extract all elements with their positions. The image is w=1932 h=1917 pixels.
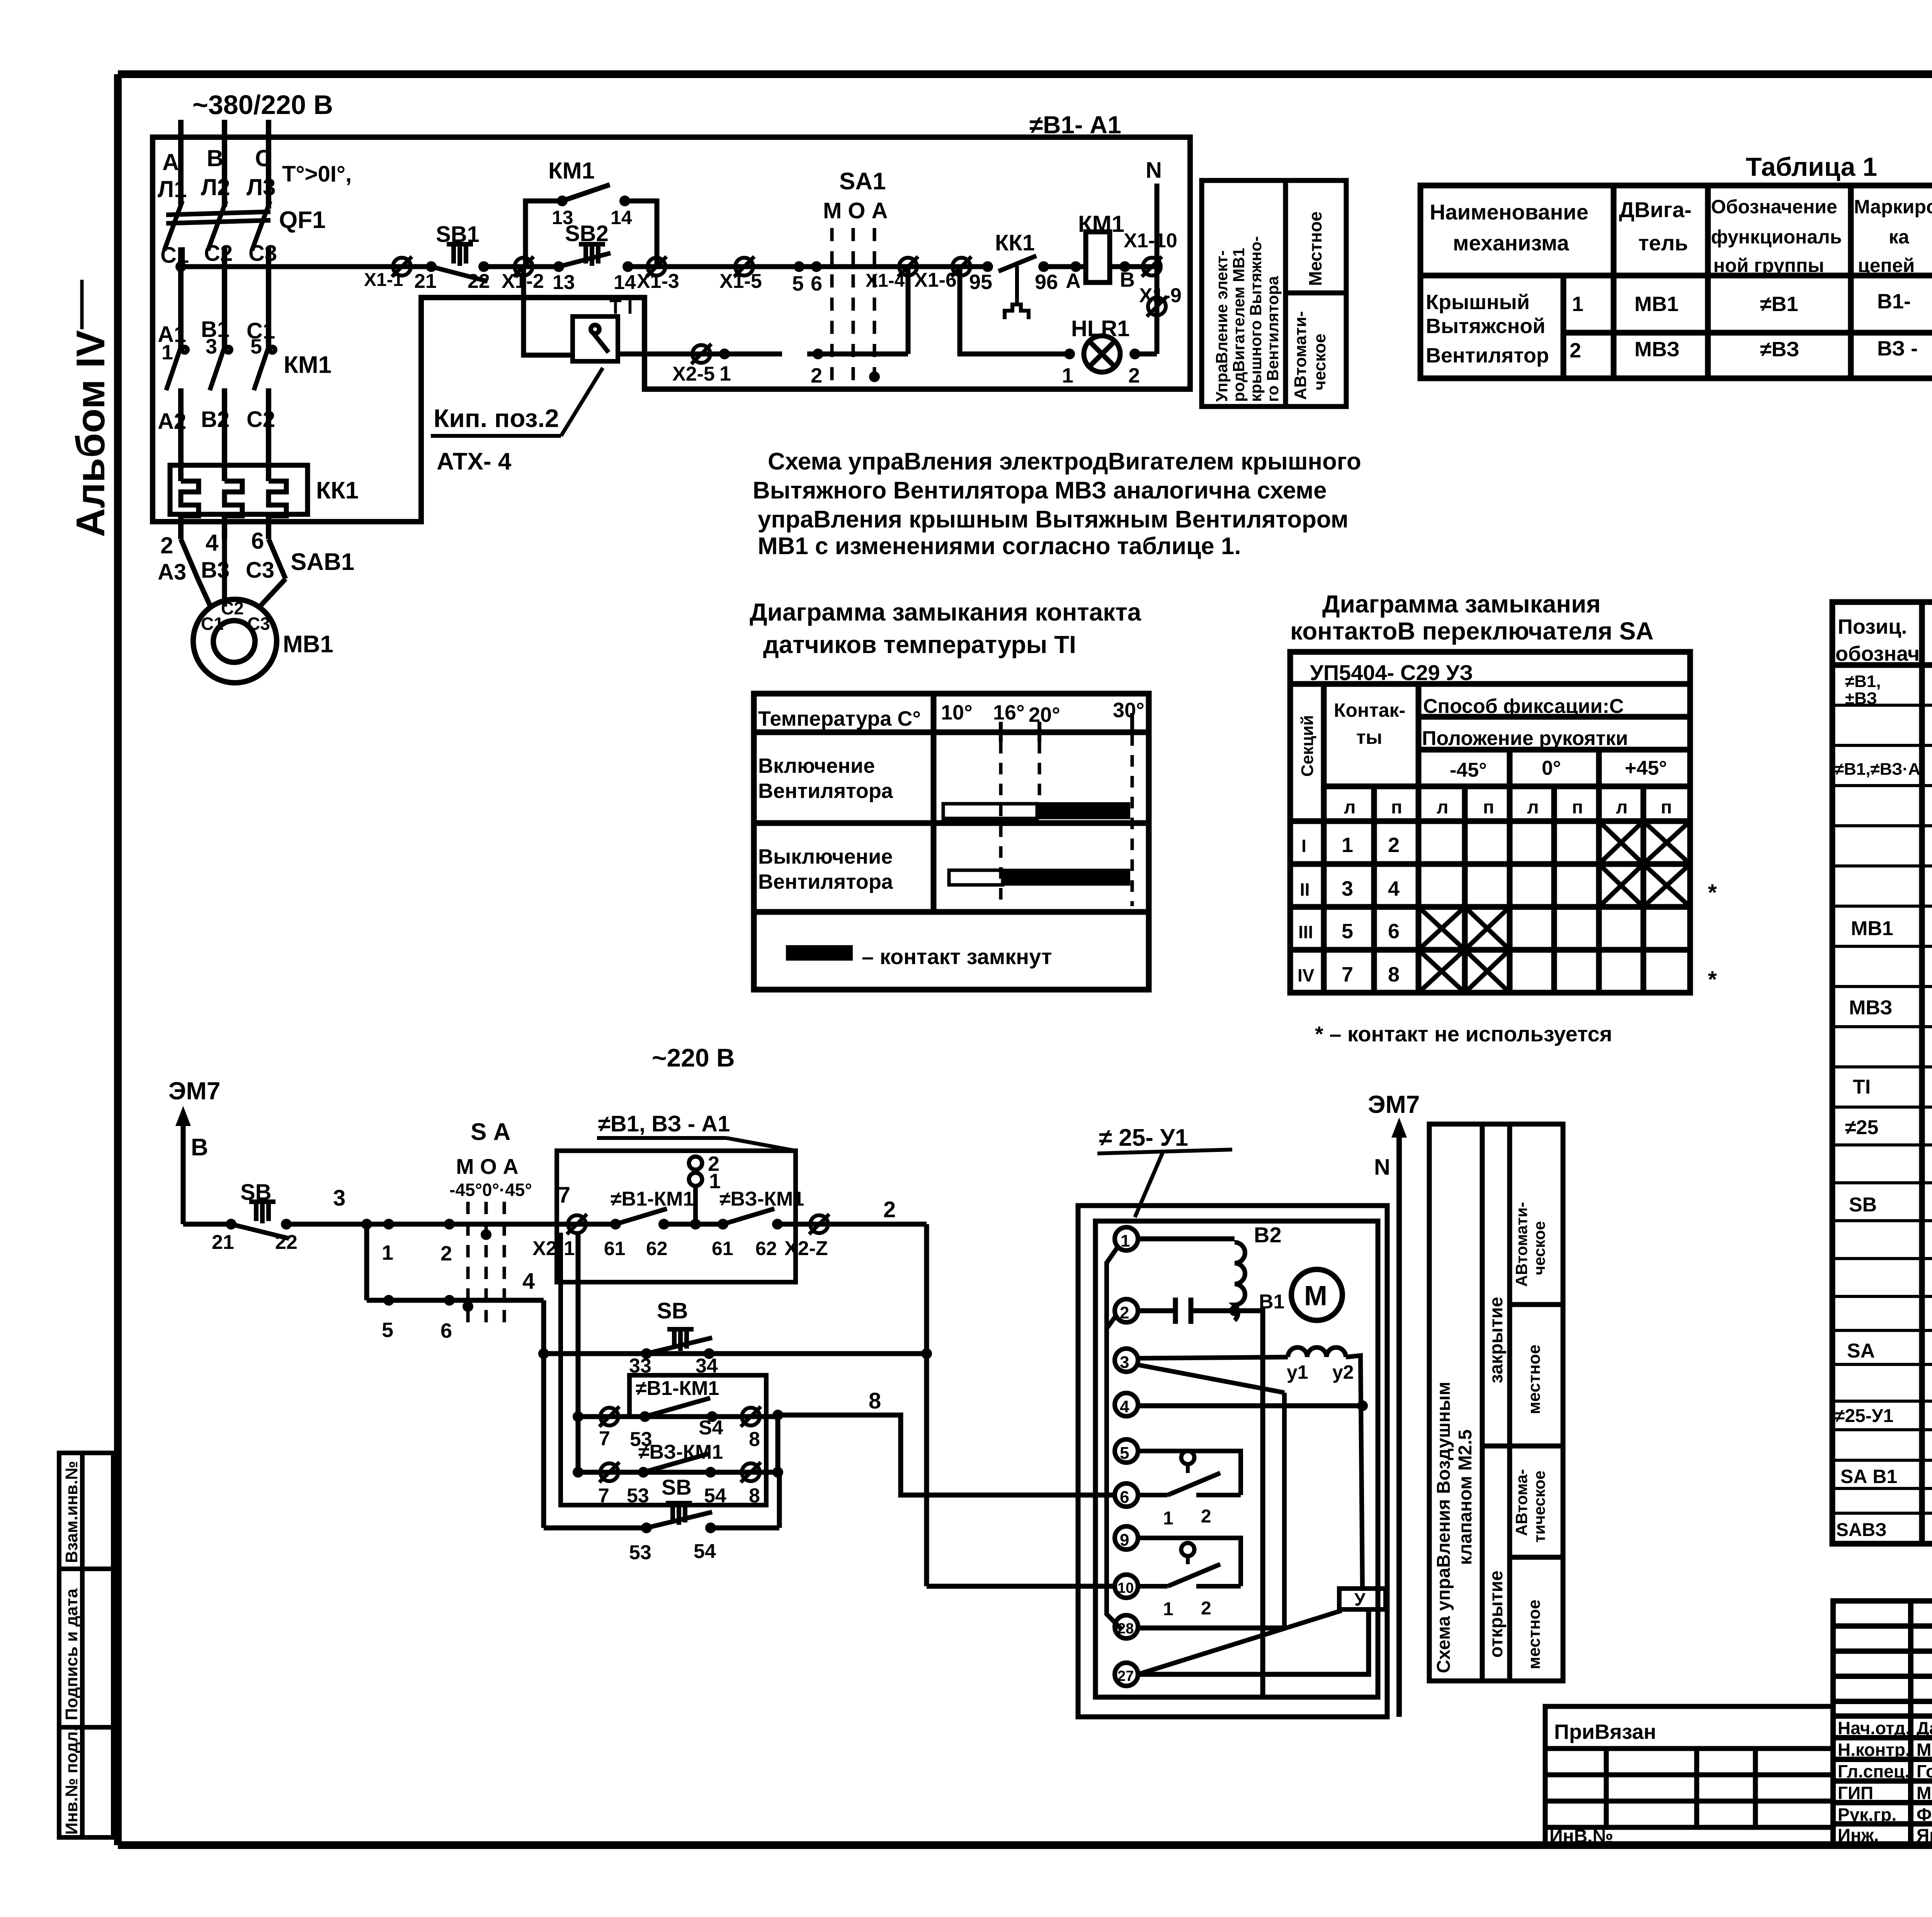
svg-text:8: 8 [869, 1388, 881, 1414]
svg-text:22: 22 [468, 270, 490, 293]
svg-text:2: 2 [811, 364, 822, 387]
phase A line [178, 120, 184, 205]
node 6 [444, 1295, 455, 1306]
svg-text:5: 5 [382, 1318, 393, 1342]
phase lines KK1 to switch [178, 514, 184, 539]
title block main grid [1833, 1601, 1932, 1845]
svg-text:S А: S А [471, 1119, 510, 1145]
mode legend box (right of control circuit) [1202, 180, 1346, 407]
node 5 [794, 261, 804, 272]
terminal X1-3 [646, 257, 667, 277]
svg-text:Мосеенко: Мосеенко [1917, 1740, 1932, 1760]
svg-text:ГИП: ГИП [1838, 1783, 1873, 1803]
svg-text:А: А [1066, 269, 1081, 293]
svg-text:Взам.инв.№: Взам.инв.№ [62, 1461, 81, 1563]
TI dashed guides [1001, 734, 1132, 906]
svg-text:13: 13 [553, 271, 575, 294]
svg-text:SА: SА [1847, 1340, 1875, 1362]
TI ON bar [943, 804, 1037, 818]
terminal 6 [1115, 1483, 1138, 1507]
svg-text:0°: 0° [1542, 757, 1561, 779]
svg-text:А3: А3 [158, 560, 186, 585]
svg-text:3: 3 [333, 1186, 345, 1211]
svg-text:96: 96 [1035, 270, 1058, 294]
svg-text:1: 1 [1342, 833, 1353, 857]
svg-text:4: 4 [1120, 1397, 1129, 1416]
svg-text:Вытяжсной: Вытяжсной [1426, 315, 1545, 338]
svg-text:цепей: цепей [1858, 255, 1915, 276]
svg-text:N: N [1146, 158, 1162, 183]
svg-text:В: В [191, 1134, 208, 1161]
svg-text:КК1: КК1 [995, 230, 1035, 255]
svg-text:1: 1 [1062, 364, 1073, 387]
limit switch contact 10 [1181, 1543, 1194, 1556]
svg-text:16°: 16° [993, 701, 1025, 724]
svg-text:1: 1 [719, 362, 731, 385]
svg-text:Позиц.: Позиц. [1838, 615, 1907, 638]
node 95 [982, 261, 993, 272]
svg-text:Нач.отд.: Нач.отд. [1838, 1718, 1910, 1738]
svg-text:≠ВЗ-КМ1: ≠ВЗ-КМ1 [719, 1188, 804, 1210]
svg-text:ВЗ -: ВЗ - [1877, 337, 1918, 360]
svg-text:5: 5 [250, 335, 262, 358]
svg-text:Крышный: Крышный [1426, 291, 1530, 314]
svg-text:10°: 10° [941, 701, 973, 724]
svg-text:М О А: М О А [456, 1154, 519, 1179]
terminal 9 [1115, 1526, 1138, 1550]
svg-text:*: * [1708, 879, 1717, 905]
svg-text:открытие: открытие [1486, 1570, 1507, 1658]
node 13 [553, 261, 564, 272]
terminal X1-5 [734, 257, 754, 277]
phase lines to KM1 [178, 247, 184, 347]
svg-text:МВ1 с изменениями согласно таб: МВ1 с изменениями согласно таблице 1. [758, 533, 1241, 560]
svg-text:QF1: QF1 [279, 207, 326, 233]
svg-text:МаркироВ: МаркироВ [1854, 196, 1932, 218]
svg-text:С2: С2 [204, 241, 233, 266]
node 21 [426, 261, 437, 272]
limit switch loop at 5-6 [1138, 1451, 1241, 1495]
svg-text:~380/220 В: ~380/220 В [192, 90, 333, 120]
svg-text:Диаграмма замыкания: Диаграмма замыкания [1322, 590, 1601, 618]
wire N drop [1155, 184, 1160, 354]
svg-text:клапаном М2.5: клапаном М2.5 [1455, 1429, 1476, 1565]
svg-text:Гольцман: Гольцман [1917, 1761, 1932, 1781]
wire from junction down right side [1235, 1311, 1263, 1696]
svg-text:6: 6 [811, 272, 822, 295]
svg-text:– контакт замкнут: – контакт замкнут [862, 944, 1052, 969]
svg-text:≠В1- А1: ≠В1- А1 [1029, 111, 1121, 139]
svg-text:62: 62 [646, 1238, 668, 1259]
svg-text:61: 61 [604, 1238, 626, 1259]
svg-text:Вентилятора: Вентилятора [758, 870, 893, 893]
svg-text:В1-: В1- [1877, 290, 1911, 313]
svg-text:л: л [1527, 797, 1539, 818]
actuator outer box [1078, 1206, 1387, 1717]
svg-text:TI: TI [1853, 1076, 1871, 1098]
terminal X2-5 [691, 344, 711, 364]
svg-text:тическое: тическое [1530, 1471, 1548, 1543]
TI OFF bar [949, 870, 1003, 885]
svg-text:≠25: ≠25 [1845, 1116, 1878, 1139]
svg-text:А: А [162, 149, 179, 175]
packet switch SAB1 blades [181, 539, 286, 607]
svg-text:6: 6 [251, 528, 264, 554]
svg-text:27: 27 [1117, 1668, 1134, 1684]
actuator inner box [1095, 1221, 1378, 1697]
svg-text:КМ1: КМ1 [548, 158, 595, 184]
internal bus with diagonals [1107, 1247, 1121, 1629]
svg-text:8: 8 [1388, 963, 1400, 986]
svg-text:Включение: Включение [758, 754, 875, 777]
svg-text:SB: SB [1849, 1194, 1877, 1216]
svg-text:Инж.: Инж. [1838, 1825, 1879, 1845]
svg-text:С: С [255, 145, 272, 171]
svg-text:6: 6 [440, 1319, 452, 1342]
temperature sensor TI [573, 316, 618, 361]
svg-text:МВ1: МВ1 [1634, 293, 1679, 316]
control box #B1,B3-A1 [557, 1151, 796, 1282]
svg-text:крышного Вытяжно-: крышного Вытяжно- [1247, 236, 1265, 402]
svg-text:Вентилятор: Вентилятор [1426, 344, 1549, 367]
TI legend [786, 945, 853, 961]
svg-text:SАВ1: SАВ1 [291, 549, 354, 575]
node 14 [622, 261, 633, 272]
svg-text:п: п [1572, 797, 1583, 818]
svg-text:III: III [1298, 922, 1313, 942]
svg-text:Таблица 1: Таблица 1 [1746, 152, 1877, 182]
node 2 [1129, 349, 1140, 359]
node 22 [478, 261, 489, 272]
svg-text:у2: у2 [1332, 1361, 1354, 1383]
svg-text:АТХ- 4: АТХ- 4 [437, 448, 512, 475]
svg-text:Схема упраВления Воздушным: Схема упраВления Воздушным [1434, 1382, 1454, 1673]
svg-text:-45°0°·45°: -45°0°·45° [449, 1180, 532, 1200]
svg-text:1: 1 [1163, 1508, 1173, 1529]
wire terminal 4 to N rail [1138, 1403, 1362, 1408]
svg-text:ДВига-: ДВига- [1619, 197, 1692, 222]
svg-text:Л1: Л1 [158, 176, 187, 202]
vertical linking 8 nodes [776, 1415, 781, 1472]
SA X marks +45 rows I,II [1418, 821, 1690, 993]
svg-text:АВтомати-: АВтомати- [1512, 1202, 1531, 1287]
terminal 28 [1115, 1615, 1138, 1638]
svg-text:54: 54 [694, 1540, 716, 1563]
svg-text:53: 53 [629, 1541, 651, 1564]
contactor KM1 main contacts [166, 347, 275, 390]
svg-text:местное: местное [1525, 1600, 1544, 1669]
svg-text:п: п [1661, 797, 1672, 818]
svg-text:3: 3 [206, 335, 217, 358]
svg-text:ФедороВа: ФедороВа [1917, 1805, 1932, 1825]
svg-text:2: 2 [160, 532, 173, 558]
svg-text:В: В [207, 145, 223, 171]
svg-text:4: 4 [1388, 877, 1400, 900]
svg-text:АВтома-: АВтома- [1512, 1469, 1531, 1536]
node 5 [383, 1295, 394, 1306]
wire: TI branch from X1-2 [524, 267, 573, 355]
drawing frame border [118, 70, 1932, 78]
svg-text:Положение рукоятки: Положение рукоятки [1422, 727, 1628, 750]
wire: loop rectangle around KM1 contacts [561, 1233, 766, 1505]
terminal X1-10 [1142, 257, 1162, 277]
svg-text:5: 5 [792, 272, 804, 295]
svg-text:2: 2 [1201, 1506, 1211, 1527]
svg-text:4: 4 [522, 1269, 535, 1294]
terminal 3 [1115, 1349, 1138, 1372]
svg-text:≠В1,≠ВЗ·А: ≠В1,≠ВЗ·А [1835, 760, 1920, 779]
svg-text:УП5404- С29 УЗ: УП5404- С29 УЗ [1310, 660, 1473, 685]
svg-text:Температура С°: Температура С° [758, 707, 921, 730]
svg-text:С1: С1 [201, 614, 224, 634]
svg-text:функциональ: функциональ [1711, 226, 1842, 248]
svg-text:8: 8 [749, 1485, 760, 1507]
phase C line [266, 120, 271, 209]
svg-text:X2-Z: X2-Z [784, 1237, 828, 1260]
svg-text:ной группы: ной группы [1713, 255, 1824, 276]
wire u2 to relay U [1346, 1356, 1362, 1589]
svg-text:6: 6 [1120, 1488, 1129, 1507]
svg-text:I: I [1301, 836, 1306, 856]
box terminals 1 2 [689, 1157, 702, 1170]
terminal 10 [1115, 1575, 1138, 1598]
parts list table grid [1832, 602, 1932, 1544]
limit switch contact 6 [1181, 1451, 1194, 1464]
svg-text:п: п [1483, 797, 1494, 818]
contactor coil KM1 [1086, 232, 1110, 282]
svg-text:8: 8 [749, 1428, 760, 1451]
svg-text:М: М [1304, 1281, 1327, 1311]
table 1 grid [1420, 185, 1932, 378]
svg-text:Кип. поз.2: Кип. поз.2 [434, 404, 559, 432]
svg-text:T I: T I [609, 296, 633, 318]
svg-text:Вытяжного Вентилятора МВЗ анал: Вытяжного Вентилятора МВЗ аналогична схе… [753, 477, 1327, 504]
node 1 [1064, 349, 1075, 359]
terminal X2-1 [567, 1214, 587, 1234]
svg-text:АВтомати-: АВтомати- [1291, 311, 1310, 400]
svg-text:Гл.спец.: Гл.спец. [1838, 1761, 1910, 1781]
wire: control row 1 [181, 264, 431, 269]
terminal 2 [1115, 1299, 1138, 1322]
svg-text:М О А: М О А [823, 198, 888, 223]
svg-text:9: 9 [1120, 1531, 1129, 1550]
svg-text:7: 7 [1342, 963, 1353, 986]
svg-text:62: 62 [755, 1238, 777, 1259]
svg-text:3: 3 [1342, 877, 1353, 900]
svg-text:II: II [1300, 879, 1310, 900]
svg-text:МВ1: МВ1 [283, 631, 333, 658]
svg-text:7: 7 [558, 1182, 570, 1208]
svg-text:SА В1: SА В1 [1840, 1466, 1897, 1487]
winding B2 [1138, 1237, 1235, 1242]
node 1 [383, 1219, 394, 1230]
svg-text:л: л [1437, 797, 1449, 818]
svg-text:2: 2 [440, 1242, 452, 1265]
svg-text:≠В1-КМ1: ≠В1-КМ1 [636, 1377, 719, 1400]
svg-text:≠ВЗ: ≠ВЗ [1760, 338, 1799, 361]
svg-text:53: 53 [627, 1485, 649, 1507]
svg-text:УпраВление элект-: УпраВление элект- [1213, 250, 1231, 402]
svg-text:20°: 20° [1029, 703, 1060, 726]
svg-text:≠В1: ≠В1 [1760, 293, 1798, 316]
svg-text:X1-9: X1-9 [1139, 284, 1182, 307]
capacitor [1138, 1308, 1175, 1313]
wire terminal 28 [1138, 1626, 1284, 1631]
terminal 4 [1115, 1393, 1138, 1416]
svg-text:4: 4 [206, 530, 219, 556]
svg-text:21: 21 [414, 270, 437, 293]
svg-text:Наименование: Наименование [1430, 200, 1588, 224]
svg-text:+45°: +45° [1625, 757, 1667, 779]
TI scale ticks [1001, 713, 1132, 742]
svg-text:тель: тель [1638, 231, 1688, 255]
svg-text:л: л [1616, 797, 1628, 818]
svg-text:ты: ты [1356, 726, 1382, 748]
svg-text:ЭМ7: ЭМ7 [168, 1077, 220, 1105]
wire to valve terminal 10 [927, 1584, 1115, 1589]
wire: SB hold row 33-34 [544, 1351, 927, 1356]
svg-text:X2-5: X2-5 [672, 363, 715, 385]
svg-text:21: 21 [212, 1231, 234, 1254]
SA diagram table [1290, 652, 1690, 993]
svg-text:Секций: Секций [1298, 715, 1317, 777]
svg-text:го Вентилятора: го Вентилятора [1264, 276, 1282, 402]
svg-text:Схема упраВления электродВигат: Схема упраВления электродВигателем крышн… [768, 448, 1361, 475]
svg-text:7: 7 [599, 1427, 610, 1450]
svg-text:ПриВязан: ПриВязан [1554, 1720, 1656, 1744]
terminal X1-9 [1147, 296, 1167, 316]
svg-text:X1-6: X1-6 [914, 269, 957, 291]
svg-text:контактоВ переключателя SА: контактоВ переключателя SА [1290, 617, 1654, 645]
svg-text:Обозначение: Обозначение [1711, 196, 1837, 218]
svg-text:КМ1: КМ1 [1078, 211, 1124, 237]
svg-text:Рук.гр.: Рук.гр. [1838, 1805, 1896, 1825]
svg-text:5: 5 [1120, 1444, 1129, 1463]
svg-text:закрытие: закрытие [1486, 1297, 1507, 1383]
svg-text:В3: В3 [201, 558, 230, 583]
svg-text:X1-3: X1-3 [637, 270, 679, 293]
svg-text:S4: S4 [699, 1417, 723, 1439]
terminal 27 [1115, 1663, 1138, 1686]
svg-text:T°>0I°,: T°>0I°, [282, 162, 352, 187]
svg-text:С3: С3 [248, 241, 277, 266]
motor MB1 [193, 599, 277, 683]
terminal 5 [1115, 1439, 1138, 1463]
svg-text:X1-4: X1-4 [866, 270, 905, 291]
left margin stamp column [59, 1453, 113, 1837]
svg-text:упраВления крышным Вытяжным Ве: упраВления крышным Вытяжным Вентилятором [758, 506, 1349, 533]
terminal X2-2 [809, 1214, 829, 1234]
svg-text:Инв.№ подл.: Инв.№ подл. [62, 1726, 81, 1835]
svg-text:С3: С3 [247, 614, 270, 634]
svg-text:Контак-: Контак- [1334, 699, 1405, 721]
svg-text:Янченко: Янченко [1917, 1825, 1932, 1845]
svg-text:≠25-У1: ≠25-У1 [1835, 1406, 1893, 1426]
node 1 row2 [719, 349, 730, 359]
motor M [1291, 1269, 1342, 1320]
svg-text:В2: В2 [1254, 1223, 1282, 1247]
TI diagram table [754, 694, 1149, 990]
svg-text:обознач: обознач [1835, 642, 1920, 665]
wire: rail down from X2-2 corner [924, 1224, 929, 1586]
svg-text:Способ фиксации:С: Способ фиксации:С [1423, 695, 1624, 718]
svg-text:Л2: Л2 [201, 174, 230, 200]
svg-text:*: * [1708, 966, 1717, 992]
svg-text:54: 54 [704, 1485, 726, 1507]
svg-text:N: N [1374, 1155, 1390, 1180]
terminal X1-4 [898, 257, 918, 277]
svg-text:5: 5 [1342, 920, 1353, 943]
terminal X1-2 [514, 257, 534, 277]
control cabinet outline #B1-A1 (notched box) [153, 137, 1190, 522]
svg-text:механизма: механизма [1453, 231, 1570, 255]
svg-text:У: У [1354, 1589, 1366, 1609]
wire: bottom row A [183, 1222, 231, 1227]
svg-text:А2: А2 [158, 409, 186, 434]
svg-text:10: 10 [1117, 1580, 1134, 1596]
svg-text:КК1: КК1 [316, 477, 359, 504]
svg-text:X2-1: X2-1 [532, 1237, 575, 1260]
wire: left rail from row B [541, 1300, 546, 1528]
node 2 [444, 1219, 455, 1230]
svg-text:Альбом IV: Альбом IV [68, 330, 113, 537]
coil u1-u2 [1288, 1347, 1346, 1357]
svg-text:2: 2 [1388, 833, 1400, 857]
svg-text:В2: В2 [201, 407, 230, 432]
svg-text:КМ1: КМ1 [284, 352, 332, 378]
node 96 [1038, 261, 1049, 272]
svg-text:X1-10: X1-10 [1124, 230, 1177, 252]
linked box Privyazan [1545, 1706, 1833, 1845]
node 22 [281, 1219, 292, 1230]
svg-text:1: 1 [1121, 1232, 1130, 1250]
svg-text:±ВЗ: ±ВЗ [1845, 689, 1877, 708]
svg-text:В: В [1120, 268, 1135, 291]
svg-text:13: 13 [552, 207, 573, 228]
svg-text:Л3: Л3 [247, 174, 276, 200]
svg-text:X1-5: X1-5 [719, 270, 762, 293]
svg-text:SАВЗ: SАВЗ [1836, 1520, 1887, 1540]
svg-text:МВЗ: МВЗ [1849, 997, 1893, 1019]
svg-text:≠В1,: ≠В1, [1845, 672, 1881, 691]
node B [1119, 261, 1130, 272]
svg-text:* – контакт не используется: * – контакт не используется [1315, 1022, 1612, 1046]
relay U box [1339, 1589, 1386, 1609]
svg-text:14: 14 [614, 271, 636, 294]
svg-text:1: 1 [382, 1241, 393, 1264]
svg-text:Подпись и дата: Подпись и дата [62, 1589, 81, 1720]
svg-text:л: л [1344, 797, 1356, 818]
svg-text:SB: SB [662, 1475, 692, 1499]
node 6 [811, 261, 822, 272]
node 21 [226, 1219, 236, 1230]
svg-text:Н.контр.: Н.контр. [1838, 1740, 1910, 1760]
svg-text:1: 1 [1572, 293, 1583, 316]
svg-text:Выключение: Выключение [758, 845, 893, 868]
svg-text:Вентилятора: Вентилятора [758, 779, 893, 803]
svg-text:6: 6 [1388, 920, 1400, 943]
terminal X1-1 [392, 257, 412, 277]
svg-text:ческое: ческое [1530, 1221, 1548, 1275]
svg-text:ИнВ.№: ИнВ.№ [1549, 1826, 1613, 1847]
svg-text:МВЗ: МВЗ [1634, 338, 1680, 361]
svg-text:ЭМ7: ЭМ7 [1368, 1090, 1420, 1118]
thermal relay KK1 [170, 465, 308, 516]
svg-text:Местное: Местное [1305, 211, 1325, 286]
svg-text:Мосеенко: Мосеенко [1917, 1783, 1932, 1803]
junction node on phase A control tap [175, 261, 186, 272]
svg-text:≠ 25- У1: ≠ 25- У1 [1099, 1124, 1188, 1151]
